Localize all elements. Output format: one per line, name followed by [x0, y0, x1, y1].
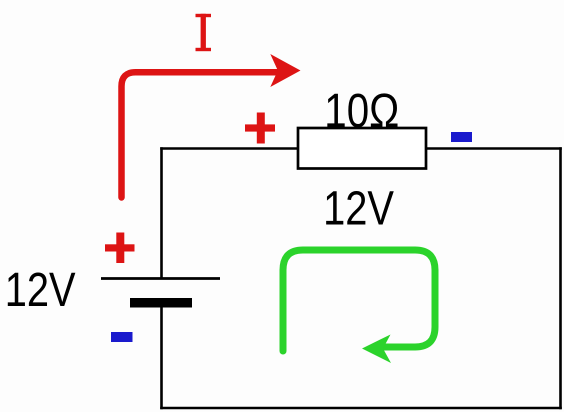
resistor R (10 ohm) body: [298, 128, 426, 169]
current label I (red serif I): [196, 14, 212, 51]
loop direction arrow (green, clockwise loop with left-pointing arrowhead): [283, 250, 435, 363]
svg-text:10Ω: 10Ω: [324, 85, 399, 138]
battery 12V: negative plate (short thick): [130, 298, 192, 308]
wire right (resistor - down right side): [559, 147, 562, 409]
polarity + (battery positive terminal, red): [105, 233, 135, 264]
polarity - (battery negative terminal, blue): [111, 332, 133, 342]
polarity + (resistor left terminal, red): [245, 113, 275, 144]
wire top (battery + to resistor and on to right corner): [160, 147, 562, 150]
wire bottom: [160, 407, 562, 410]
current arrow I (red, up from battery then right): [122, 54, 301, 198]
svg-text:12V: 12V: [323, 182, 394, 235]
polarity - (resistor right terminal, blue): [451, 132, 472, 142]
battery 12V: positive plate (long thin): [101, 277, 220, 280]
wire left upper (top rail down to battery + plate): [160, 147, 163, 278]
wire left lower (battery - plate down to bottom rail): [160, 303, 163, 409]
svg-text:12V: 12V: [5, 264, 76, 317]
